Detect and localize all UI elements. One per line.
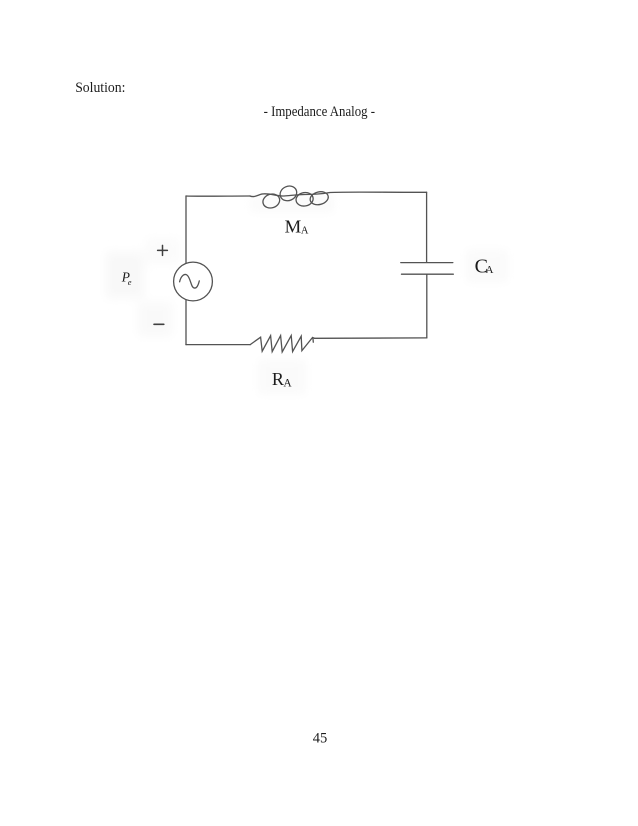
scan smudge under coil xyxy=(250,196,334,212)
scan smudge near P_e xyxy=(106,252,144,298)
resistor R_A sawtooth xyxy=(250,336,314,352)
minus sign xyxy=(154,323,164,325)
wire right vertical upper xyxy=(426,192,428,262)
scan smudge near plus xyxy=(146,238,180,264)
svg-text:M: M xyxy=(285,217,302,237)
wire top-right horizontal xyxy=(329,191,427,194)
scan smudge near C_A xyxy=(466,250,508,282)
wire top-left horizontal xyxy=(186,195,250,197)
wire bottom-left horizontal xyxy=(186,344,250,346)
svg-text:- Impedance Analog -: - Impedance Analog - xyxy=(264,104,376,120)
inductor M_A scribble coil xyxy=(250,194,262,197)
scan smudge near R_A xyxy=(258,360,306,394)
svg-text:R: R xyxy=(272,369,284,389)
capacitor C_A top plate xyxy=(401,262,453,264)
wire right vertical lower xyxy=(426,275,428,338)
capacitor C_A bottom plate xyxy=(402,273,454,275)
wire left vertical lower xyxy=(185,300,187,345)
plus sign xyxy=(158,245,168,255)
svg-text:Solution:: Solution: xyxy=(75,80,125,96)
svg-text:A: A xyxy=(283,378,292,390)
scan smudge near minus xyxy=(138,302,172,336)
svg-text:A: A xyxy=(301,226,309,237)
svg-text:e: e xyxy=(128,277,132,287)
source circle P_e xyxy=(174,262,213,301)
svg-text:A: A xyxy=(486,264,494,276)
sine wave inside source xyxy=(180,274,200,288)
svg-text:45: 45 xyxy=(313,731,328,747)
wire bottom-right horizontal xyxy=(315,337,427,339)
wire left vertical upper xyxy=(185,196,187,263)
